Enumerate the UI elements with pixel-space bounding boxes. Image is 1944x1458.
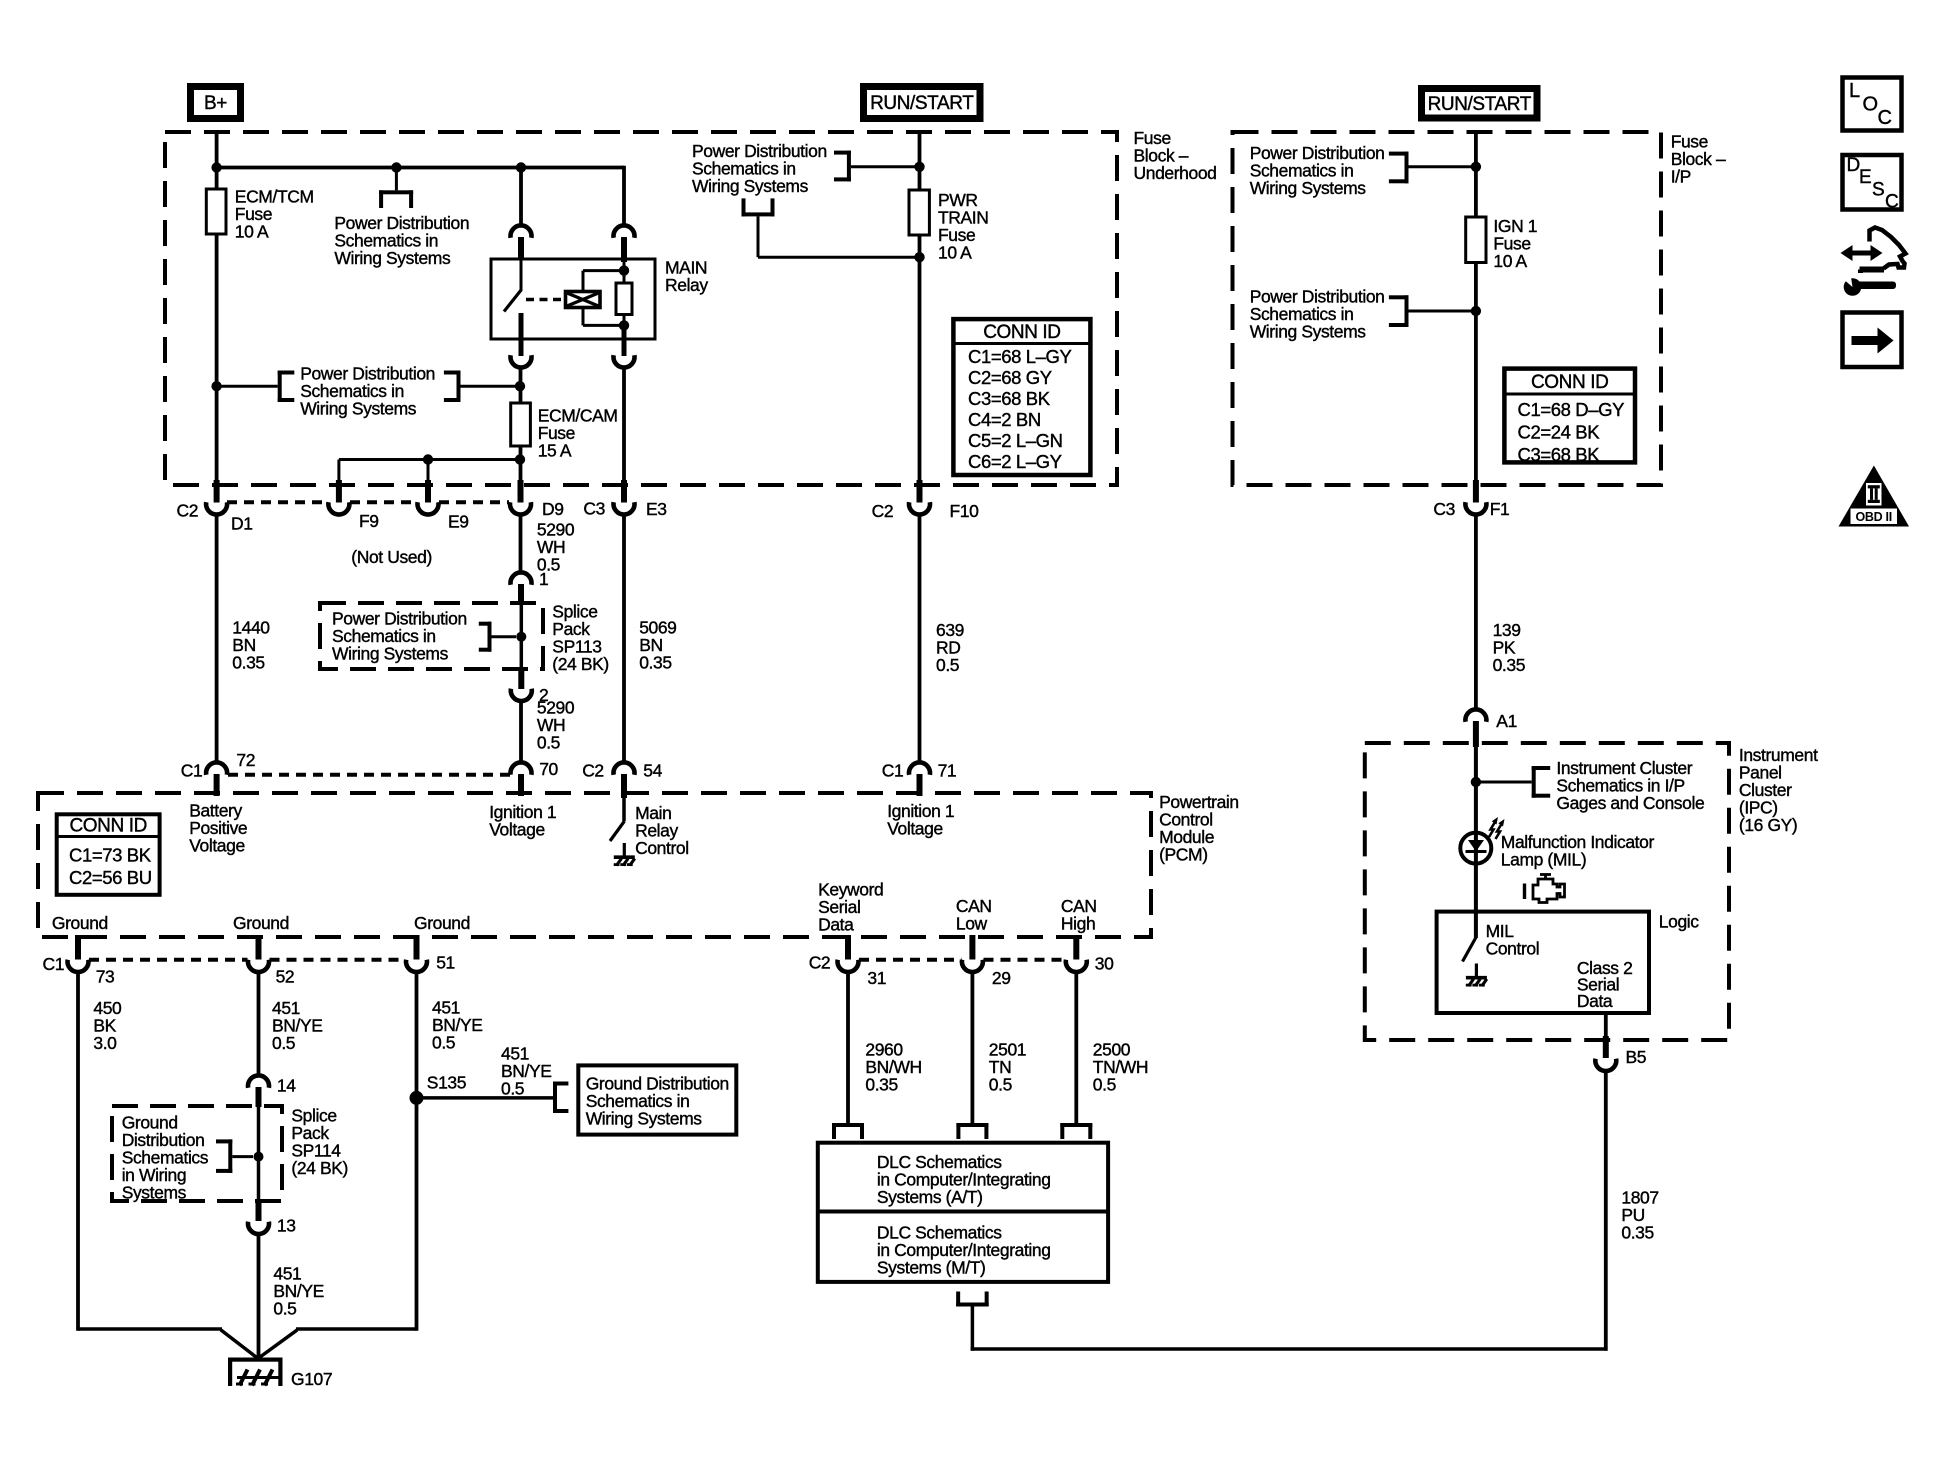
svg-text:RUN/START: RUN/START (870, 93, 974, 114)
svg-text:0.5: 0.5 (273, 1298, 296, 1318)
svg-text:Wiring Systems: Wiring Systems (1250, 322, 1367, 342)
svg-text:RUN/START: RUN/START (1428, 94, 1532, 115)
bracket ] ref power distribution 2 (457, 371, 461, 403)
connector 70 (511, 762, 532, 774)
wire inside SP113 (520, 604, 524, 669)
svg-text:29: 29 (992, 968, 1011, 988)
svg-text:Wiring Systems: Wiring Systems (692, 176, 809, 196)
icon arrow box (1843, 313, 1902, 368)
svg-text:C3: C3 (583, 499, 605, 519)
node ign1/ref (1471, 162, 1481, 172)
connector C1/71 (909, 762, 930, 774)
wire 639 RD (918, 515, 922, 764)
connector E3 (614, 502, 635, 514)
connector C3/F1 (1465, 502, 1486, 514)
wire bracket to splice (492, 635, 517, 638)
svg-text:D9: D9 (542, 499, 564, 519)
svg-text:S135: S135 (427, 1073, 466, 1093)
connector SP113 pin 2 (511, 689, 532, 701)
bracket [ instrument cluster ref (1532, 766, 1536, 798)
node coil top (619, 265, 629, 275)
svg-text:O: O (1863, 94, 1879, 116)
engine icon (1533, 879, 1565, 903)
connector C2/54 (614, 762, 635, 774)
svg-text:Systems (M/T): Systems (M/T) (877, 1258, 986, 1278)
svg-text:I/P: I/P (1671, 167, 1691, 187)
svg-text:54: 54 (643, 761, 662, 781)
PCM CONN ID box (57, 814, 160, 895)
wire bracket to relay-left col (461, 385, 521, 388)
wire bus to relay left (519, 168, 523, 227)
svg-text:D: D (1847, 155, 1860, 176)
svg-text:51: 51 (436, 952, 455, 972)
svg-text:Wiring Systems: Wiring Systems (586, 1109, 703, 1129)
node coil bottom (619, 320, 629, 330)
svg-text:(16 GY): (16 GY) (1739, 815, 1797, 835)
svg-text:Voltage: Voltage (887, 819, 943, 839)
node D9/branch (515, 454, 525, 464)
svg-text:Logic: Logic (1659, 912, 1699, 932)
svg-text:30: 30 (1095, 953, 1114, 973)
svg-text:C1=68 D–GY: C1=68 D–GY (1518, 399, 1625, 420)
svg-text:52: 52 (276, 966, 295, 986)
connector relay pin top-left (511, 225, 532, 237)
bracket ] ref 5 (1405, 295, 1409, 327)
wire fuse to C2/F10 (918, 235, 922, 482)
svg-text:A1: A1 (1496, 711, 1517, 731)
CONN ID box I/P (1504, 369, 1635, 463)
harness dotted line row2 (228, 773, 510, 777)
power feed B+ box (187, 83, 244, 122)
connector A1 (1465, 709, 1486, 721)
fuse ECM/TCM 10A (215, 189, 219, 234)
harness dotted line row3 left (89, 958, 248, 962)
svg-text:CONN ID: CONN ID (69, 816, 146, 837)
svg-text:0.5: 0.5 (272, 1033, 295, 1053)
wire horizontal DLC to B5 (971, 1347, 1608, 1351)
svg-text:10 A: 10 A (1493, 251, 1527, 271)
connector SP113 pin 1 (511, 572, 532, 584)
ground MIL control (1475, 964, 1478, 978)
connector D9 stub (518, 480, 524, 503)
svg-text:(24 BK): (24 BK) (291, 1158, 348, 1178)
tab above DLC box x=1076.3 (1060, 1123, 1092, 1127)
bracket ] ref SP113 (488, 622, 492, 652)
connector E3 stub (621, 480, 627, 503)
svg-text:(24 BK): (24 BK) (552, 654, 609, 674)
power feed RUN/START box (underhood) (860, 83, 984, 122)
svg-text:3.0: 3.0 (93, 1033, 117, 1053)
connector relay pin bottom-right (614, 355, 635, 367)
icon OBD II triangle (1839, 466, 1910, 527)
connector C1/73 (67, 960, 88, 972)
PCM dashed box (38, 793, 1151, 937)
bus wire horizontal (217, 166, 624, 170)
svg-text:0.5: 0.5 (432, 1032, 455, 1052)
wire DLC down (971, 1307, 975, 1351)
svg-text:F10: F10 (950, 501, 980, 521)
MIL lamp (1460, 833, 1491, 864)
node ign1/ref 2 (1471, 306, 1481, 316)
svg-text:C2: C2 (177, 501, 199, 521)
main relay control switch in PCM (622, 798, 626, 821)
connector C2/D1 stub (214, 480, 220, 503)
svg-text:0.35: 0.35 (1493, 655, 1525, 675)
power feed RUN/START box (I/P) (1418, 85, 1541, 122)
wire 451 below 13 (257, 1236, 261, 1360)
tab above DLC box x=848 (832, 1123, 864, 1127)
svg-text:F9: F9 (359, 511, 379, 531)
svg-text:Lamp (MIL): Lamp (MIL) (1501, 850, 1586, 870)
svg-text:Wiring Systems: Wiring Systems (1250, 178, 1367, 198)
svg-text:C2=68 GY: C2=68 GY (968, 367, 1052, 388)
svg-text:0.35: 0.35 (639, 653, 671, 673)
svg-text:Systems: Systems (122, 1182, 187, 1202)
connector 51 (406, 960, 427, 972)
ground G107 symbol (228, 1358, 283, 1362)
svg-text:Voltage: Voltage (189, 836, 245, 856)
wire left col to bracket (217, 385, 278, 388)
wire 451 right (51) (415, 973, 419, 1331)
bracket ] ref 4 (1405, 152, 1409, 184)
connector SP114 pin 14 (248, 1075, 269, 1087)
MIL lightning arrows (1489, 822, 1495, 837)
fuse block I/P dashed box (1233, 132, 1662, 485)
connector relay pin bottom-left (511, 355, 532, 367)
svg-text:C2: C2 (872, 501, 894, 521)
svg-text:0.5: 0.5 (989, 1074, 1012, 1094)
svg-text:CONN ID: CONN ID (1531, 372, 1608, 393)
harness dotted line row3 right (859, 958, 962, 962)
wire 1440 BN (215, 515, 219, 764)
svg-text:C3=68 BK: C3=68 BK (1518, 444, 1601, 465)
node pwr train/ref (914, 162, 924, 172)
node left col/ref (211, 381, 221, 391)
DLC schematics box (818, 1143, 1108, 1282)
connector SP114 pin 13 (248, 1222, 269, 1234)
svg-text:73: 73 (96, 966, 115, 986)
svg-text:C: C (1878, 107, 1892, 129)
svg-text:C2=56 BU: C2=56 BU (69, 867, 152, 888)
svg-text:31: 31 (867, 968, 886, 988)
splice pack SP113 dashed box (320, 603, 543, 669)
wire inside SP114 (257, 1107, 261, 1201)
wire ign1 down (1474, 263, 1478, 483)
svg-text:C2: C2 (582, 761, 604, 781)
fuse IGN 1 10A (1466, 217, 1486, 263)
ref tab power distribution (top left) (395, 168, 398, 191)
svg-text:71: 71 (938, 761, 957, 781)
svg-text:C1: C1 (882, 761, 904, 781)
icon LOC box (1843, 78, 1902, 131)
connector relay pin top-right (614, 225, 635, 237)
svg-text:C2: C2 (809, 952, 831, 972)
connector C2/31 (838, 960, 859, 972)
node pwr train/ref 2 (914, 252, 924, 262)
svg-text:14: 14 (277, 1076, 296, 1096)
svg-text:Relay: Relay (665, 275, 708, 295)
connector C2/31 stub (845, 935, 851, 960)
wire F9/E9 branch horizontal (339, 458, 520, 461)
connector E9 stub (425, 480, 431, 503)
node bus/relay junction (516, 162, 526, 172)
svg-text:0.5: 0.5 (501, 1079, 524, 1099)
wire relay bottom-right down to E3 (622, 368, 626, 482)
wire bus corner to relay right (622, 166, 626, 227)
svg-text:C1: C1 (181, 761, 203, 781)
svg-text:Data: Data (1577, 991, 1613, 1011)
tab below DLC box (956, 1303, 989, 1307)
node bus/ref junction (391, 162, 401, 172)
connector C1/73 stub (75, 935, 81, 960)
connector SP113 pin 2 stub (518, 669, 524, 689)
svg-text:E9: E9 (448, 512, 469, 532)
wire RUN/START I/P down (1474, 131, 1478, 217)
svg-text:B5: B5 (1626, 1047, 1647, 1067)
connector SP114 pin 13 stub (256, 1201, 262, 1221)
splice pack SP114 dashed box (112, 1106, 282, 1201)
svg-text:Ground: Ground (52, 913, 108, 933)
connector C2/F10 (909, 502, 930, 514)
wire 2501 TN (971, 973, 975, 1125)
wire 450 BK (76, 973, 80, 1331)
connector C1/72 (206, 762, 227, 774)
bracket [ ref power distribution 2 (278, 371, 282, 403)
svg-text:70: 70 (539, 759, 558, 779)
svg-text:E3: E3 (646, 499, 667, 519)
svg-text:Systems (A/T): Systems (A/T) (877, 1187, 983, 1207)
svg-text:C1=73 BK: C1=73 BK (69, 845, 152, 866)
svg-text:13: 13 (277, 1215, 296, 1235)
relay coil wiring (582, 271, 585, 292)
svg-text:S: S (1872, 180, 1884, 201)
svg-text:Wiring Systems: Wiring Systems (332, 644, 449, 664)
relay coil link dashed (526, 298, 565, 302)
wire 2500 TN/WH (1074, 973, 1078, 1125)
wire down to F9 (337, 460, 340, 483)
connector F9 (328, 502, 349, 514)
svg-text:10 A: 10 A (235, 222, 269, 242)
svg-text:C2=24 BK: C2=24 BK (1518, 421, 1601, 442)
svg-text:0.5: 0.5 (936, 655, 959, 675)
svg-text:10 A: 10 A (938, 243, 972, 263)
svg-text:72: 72 (236, 750, 255, 770)
bracket u ref 3 (742, 212, 775, 216)
node SP113 splice (516, 632, 526, 642)
connector 29 stub (969, 935, 975, 960)
fuse PWR TRAIN 10A (909, 190, 929, 235)
svg-text:Ground: Ground (414, 913, 470, 933)
wire relay bottom-left down through ECM/CAM fuse (519, 368, 523, 482)
MIL control switch (1463, 938, 1476, 962)
node bus/B+ junction (211, 162, 221, 172)
connector C2/F10 stub (917, 480, 923, 503)
wire bracket down (757, 216, 760, 257)
connector C2/D1 (206, 502, 227, 514)
wire bracket to col (851, 165, 920, 168)
connector D9 (510, 502, 531, 514)
ground merge wires (78, 1327, 222, 1331)
svg-text:Data: Data (818, 914, 854, 934)
svg-text:B+: B+ (204, 93, 227, 114)
svg-text:L: L (1849, 80, 1860, 102)
connector C3/F1 stub (1473, 480, 1479, 503)
CONN ID box underhood (953, 319, 1090, 475)
svg-text:Low: Low (956, 913, 988, 933)
wire 5290 WH upper (519, 515, 523, 574)
svg-text:D1: D1 (231, 513, 253, 533)
svg-text:1: 1 (539, 569, 548, 589)
svg-text:C6=2 L–GY: C6=2 L–GY (968, 451, 1062, 472)
connector B5 (1595, 1059, 1616, 1071)
IPC dashed box (1365, 743, 1729, 1040)
svg-text:CONN ID: CONN ID (983, 322, 1060, 343)
fuse ECM/CAM 15A (511, 403, 531, 446)
wire fuse to connector C2/D1 (215, 234, 219, 482)
svg-text:Wiring Systems: Wiring Systems (334, 248, 451, 268)
wire 5290 WH lower (519, 703, 523, 764)
svg-text:OBD II: OBD II (1855, 510, 1891, 524)
svg-text:C4=2 BN: C4=2 BN (968, 409, 1041, 430)
node ipc ref (1471, 777, 1481, 787)
fuse block underhood dashed box (165, 132, 1117, 485)
logic box (1437, 912, 1649, 1013)
wire 139 PK (1474, 515, 1478, 711)
svg-text:Underhood: Underhood (1134, 163, 1217, 183)
svg-text:Control: Control (1486, 939, 1540, 959)
svg-text:C1: C1 (43, 954, 65, 974)
ground distribution box (578, 1065, 736, 1134)
connector 30 stub (1073, 935, 1079, 960)
svg-text:0.35: 0.35 (865, 1074, 897, 1094)
wire 2960 BN/WH (846, 973, 850, 1125)
node SP114 splice (254, 1152, 264, 1162)
harness dotted line row1 (227, 500, 328, 504)
connector E9 (417, 502, 438, 514)
svg-text:Wiring Systems: Wiring Systems (300, 399, 417, 419)
svg-text:(PCM): (PCM) (1159, 845, 1208, 865)
svg-text:0.5: 0.5 (537, 732, 560, 752)
connector 52 (248, 960, 269, 972)
wire logic to B5 (1604, 1013, 1608, 1037)
relay resistor (616, 283, 632, 315)
relay MAIN box (491, 259, 655, 339)
svg-text:Gages and Console: Gages and Console (1556, 793, 1704, 813)
ground main relay control (623, 843, 626, 857)
node ECM/CAM col/ref (515, 381, 525, 391)
wire RUN/START down (918, 131, 922, 190)
wire S135 to ground dist box (417, 1096, 554, 1100)
svg-text:C3: C3 (1433, 499, 1455, 519)
svg-text:C5=2 L–GN: C5=2 L–GN (968, 430, 1063, 451)
connector 29 (962, 960, 983, 972)
icon DESC box (1843, 155, 1902, 210)
svg-text:C3=68 BK: C3=68 BK (968, 388, 1051, 409)
bracket ] ref 3 (847, 151, 851, 182)
relay switch (520, 260, 523, 290)
wire B+ down to bus (215, 131, 219, 189)
svg-text:C1=68 L–GY: C1=68 L–GY (968, 346, 1072, 367)
svg-text:Voltage: Voltage (489, 820, 545, 840)
wire A1 down into IPC (1474, 747, 1478, 938)
connector F9 stub (336, 480, 342, 503)
wire 5069 BN (622, 515, 626, 764)
node S135 splice (410, 1091, 424, 1105)
svg-text:15 A: 15 A (538, 441, 572, 461)
wire to col (758, 256, 920, 259)
connector 30 (1066, 960, 1087, 972)
connector 52 stub (256, 935, 262, 960)
relay right branch (621, 237, 627, 262)
wire 1807 PU (1604, 1073, 1608, 1351)
icon repair (arrows + wrench) (1849, 251, 1874, 256)
connector 51 stub (414, 935, 420, 960)
svg-text:(Not Used): (Not Used) (351, 547, 432, 567)
svg-text:C: C (1885, 192, 1898, 213)
svg-text:F1: F1 (1490, 499, 1510, 519)
svg-text:G107: G107 (291, 1369, 332, 1389)
svg-text:0.35: 0.35 (1621, 1223, 1653, 1243)
wire 451 middle to SP114 (257, 973, 261, 1077)
bracket [ ground dist ref (553, 1082, 557, 1114)
svg-text:0.5: 0.5 (1093, 1074, 1116, 1094)
svg-text:Control: Control (635, 838, 689, 858)
bracket ] ref SP114 (228, 1139, 232, 1173)
tab above DLC box x=972.4 (956, 1123, 988, 1127)
relay coil box with X (566, 292, 601, 308)
wire down to E9 (427, 460, 430, 483)
svg-text:0.35: 0.35 (232, 653, 264, 673)
svg-text:E: E (1859, 167, 1871, 188)
svg-text:High: High (1061, 913, 1095, 933)
svg-text:Ground: Ground (233, 913, 289, 933)
node E9 branch (423, 454, 433, 464)
